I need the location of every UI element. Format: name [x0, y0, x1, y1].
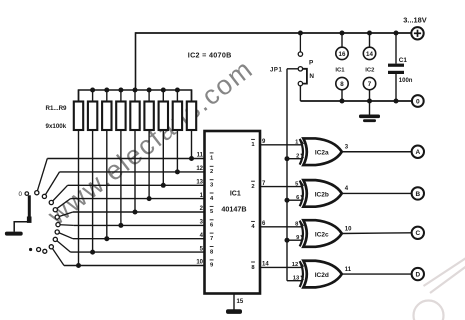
pin number 1 (IC2a top input): [295, 140, 303, 146]
ground (supply): [359, 115, 380, 123]
node keypad contact 3: [49, 200, 53, 204]
svg-text:8: 8: [340, 81, 344, 88]
svg-text:13: 13: [293, 276, 300, 282]
wire diagonal to contact 8: [55, 239, 70, 252]
junction top rail / IC1 supply: [340, 31, 345, 36]
pin label input 6 (inside): [210, 220, 214, 229]
wire IC1 to IC2a input 1: [260, 144, 303, 146]
node keypad contact 2: [42, 194, 46, 198]
watermark gray corner logo: [414, 258, 465, 320]
svg-text:D: D: [415, 271, 420, 278]
xor gate IC2b: [300, 180, 342, 207]
svg-text:40147B: 40147B: [221, 204, 246, 213]
junction bus / R8: [175, 88, 180, 93]
junction JP1 line / IC2a input: [285, 156, 290, 161]
terminal C: [412, 227, 424, 239]
pin number 5 (IC2b top input): [295, 181, 303, 187]
node JP1 lower contact: [298, 81, 302, 85]
node keypad contact 5: [55, 215, 59, 219]
svg-text:15: 15: [237, 299, 244, 305]
pin label input 7 (inside): [210, 233, 214, 242]
wire diagonal to contact 9: [51, 247, 64, 266]
wire JP1 common to XOR inputs: [287, 69, 298, 281]
resistor R8: [173, 90, 182, 172]
node keypad contact 6: [56, 223, 60, 227]
wire JP1 line to IC2d input 13: [287, 280, 302, 282]
junction bus / R3: [104, 88, 109, 93]
svg-text:10: 10: [345, 226, 352, 232]
svg-text:R1...R9: R1...R9: [46, 105, 68, 112]
capacitor C1: [388, 64, 404, 74]
pin label output 8 (inside): [251, 262, 255, 271]
junction 0V / IC1 pin8: [340, 99, 345, 104]
junction R8 / input wire 2: [175, 169, 180, 174]
svg-text:IC1: IC1: [230, 190, 241, 197]
junction R5 / input wire 5: [133, 210, 138, 215]
svg-text:4: 4: [345, 186, 349, 192]
svg-text:9x100k: 9x100k: [46, 123, 67, 130]
svg-text:IC2c: IC2c: [315, 231, 329, 238]
svg-text:IC2: IC2: [365, 68, 375, 74]
pin label output 4 (inside): [251, 221, 255, 230]
watermark red diagonal text: [42, 53, 259, 231]
junction R2 / input wire 8: [90, 250, 95, 255]
svg-text:7: 7: [368, 81, 372, 88]
svg-text:14: 14: [366, 51, 373, 58]
junction bus / R7: [161, 88, 166, 93]
wire keypad contact 2 to IC1 pin 12: [60, 171, 205, 173]
pin number 2 (IC2a bottom input): [296, 154, 303, 160]
junction top rail / JP1: [298, 31, 303, 36]
wire diagonal to contact 1: [37, 159, 48, 193]
pin number 13 (IC2d bottom input): [293, 276, 304, 282]
junction R1 / input wire 9: [76, 263, 81, 268]
pin label input 9 (inside): [210, 260, 214, 269]
wire arm to common bar: [14, 222, 29, 232]
resistor R6: [144, 90, 153, 199]
wire C1 bottom lead: [395, 74, 397, 101]
svg-text:2: 2: [296, 154, 299, 160]
wire IC1 pin16 stub: [341, 33, 343, 47]
svg-text:IC2b: IC2b: [315, 191, 329, 198]
junction bus / R2: [90, 88, 95, 93]
terminal +V: [411, 27, 423, 39]
junction R4 / input wire 6: [118, 223, 123, 228]
terminal 0V: [412, 95, 424, 107]
resistor R9: [187, 90, 196, 159]
wire +V top rail: [136, 32, 412, 34]
xor gate IC2a: [300, 138, 342, 165]
svg-text:P: P: [309, 60, 314, 67]
svg-text:B: B: [415, 191, 420, 198]
svg-text:N: N: [309, 73, 314, 80]
svg-text:12: 12: [196, 166, 203, 172]
wire keypad contact 9 to IC1 pin 10: [64, 265, 205, 267]
wire IC2 pin14 stub: [369, 33, 371, 47]
svg-text:16: 16: [339, 51, 346, 58]
wire C1 top lead: [395, 33, 397, 64]
ground (IC1 pin15): [226, 309, 242, 314]
svg-text:2: 2: [210, 169, 213, 175]
xor gate IC2c: [300, 220, 342, 247]
wire diagonal to contact 4: [55, 199, 70, 210]
wire IC2d output to terminal D: [342, 273, 412, 275]
junction bus / R5: [133, 88, 138, 93]
svg-text:0: 0: [416, 99, 420, 106]
wire keypad contact 7 to IC1 pin 4: [73, 238, 205, 240]
wire JP1 line to IC2c input 9: [287, 239, 302, 241]
svg-text:7: 7: [210, 236, 213, 242]
svg-text:3: 3: [345, 145, 349, 151]
svg-text:0: 0: [19, 191, 23, 198]
wire IC2 pin7 to ground: [369, 101, 371, 115]
terminal A: [412, 146, 424, 158]
wire JP1 line to IC2a input 2: [287, 158, 302, 160]
pin number 6 (IC2b bottom input): [296, 195, 303, 201]
svg-text:C1: C1: [399, 57, 408, 64]
junction top rail / IC2 supply: [367, 31, 372, 36]
wire IC2c output to terminal C: [342, 232, 412, 235]
resistor R1: [74, 90, 83, 266]
svg-text:IC2 = 4070B: IC2 = 4070B: [188, 50, 232, 59]
svg-text:12: 12: [292, 262, 298, 268]
pin number 8 (IC2c top input): [295, 222, 303, 228]
common bar (0V keypad): [5, 232, 23, 236]
svg-text:IC1: IC1: [335, 68, 345, 74]
resistor R3: [102, 90, 111, 239]
svg-text:11: 11: [197, 153, 204, 159]
node lower aux contact a: [37, 248, 41, 252]
wire IC1 to IC2c input 8: [260, 226, 303, 228]
svg-text:100n: 100n: [399, 78, 413, 84]
node keypad contact 1: [35, 191, 39, 195]
junction R6 / input wire 4: [147, 196, 152, 201]
wire IC2a output to terminal A: [342, 151, 412, 153]
pin label output 2 (inside): [251, 181, 255, 190]
wire resistor bus: [79, 90, 192, 102]
svg-text:IC2a: IC2a: [315, 150, 329, 157]
svg-text:10: 10: [196, 260, 203, 266]
svg-text:A: A: [415, 149, 420, 156]
junction bus / R6: [147, 88, 152, 93]
wire JP1 N to 0V rail: [299, 86, 301, 101]
xor gate IC2d: [300, 261, 342, 288]
pin number 12 (IC2d top input): [292, 262, 304, 268]
wire JP1 line to IC2b input 6: [287, 199, 302, 201]
junction R7 / input wire 3: [161, 183, 166, 188]
pin label input 3 (inside): [210, 180, 214, 189]
wire diagonal to contact 7: [57, 232, 73, 239]
wire diagonal to contact 2: [44, 172, 59, 197]
wire IC1 pin15 to ground: [233, 294, 235, 310]
resistor R2: [88, 90, 97, 252]
wire IC2 pin7 stub: [369, 90, 371, 101]
junction R3 / input wire 7: [104, 236, 109, 241]
svg-text:C: C: [415, 230, 420, 237]
node key 0 contact: [25, 192, 29, 196]
svg-text:3...18V: 3...18V: [403, 16, 426, 25]
wire keypad contact 3 to IC1 pin 13: [68, 184, 205, 186]
wire keypad contact 1 to IC1 pin 11: [47, 158, 204, 160]
resistor R7: [159, 90, 168, 185]
IC2 supply pin 7: [363, 77, 375, 89]
pin label input 4 (inside): [210, 193, 214, 202]
wire IC1 pin8 stub: [341, 90, 343, 101]
pin label input 2 (inside): [210, 166, 214, 175]
node lower aux dot: [29, 248, 32, 251]
wire keypad contact 6 to IC1 pin 3: [74, 224, 205, 226]
node JP1 common contact: [298, 67, 302, 71]
IC1 supply pin 8: [336, 77, 348, 89]
node keypad contact 8: [53, 237, 57, 241]
junction 0V / IC2 pin7: [367, 99, 372, 104]
IC1 supply pin 16: [336, 47, 348, 59]
wire IC1 to IC2d input 12: [260, 266, 303, 268]
wire diagonal to contact 5: [57, 212, 73, 217]
pin number 9 (IC2c bottom input): [296, 235, 303, 241]
terminal D: [412, 268, 424, 280]
pin label input 5 (inside): [210, 206, 214, 215]
pin label output 1 (inside): [251, 139, 255, 148]
pin label input 8 (inside): [210, 247, 214, 256]
wire IC2b output to terminal B: [342, 192, 412, 194]
node lower aux contact b: [43, 249, 47, 253]
svg-text:JP1: JP1: [270, 67, 283, 73]
node keypad contact 4: [53, 208, 57, 212]
terminal B: [412, 187, 424, 199]
wire diagonal to contact 6: [58, 224, 74, 227]
wire 0V rail: [300, 100, 412, 102]
wire IC1 to IC2b input 5: [260, 186, 303, 188]
switch arm (wiper): [27, 195, 32, 223]
junction bus / R4: [118, 88, 123, 93]
svg-text:13: 13: [196, 180, 203, 186]
junction JP1 line / IC2b input: [285, 198, 290, 203]
junction 0V / C1: [394, 99, 399, 104]
svg-text:IC2d: IC2d: [315, 272, 329, 279]
svg-text:2: 2: [251, 184, 254, 190]
junction JP1 line / IC2c input: [285, 238, 290, 243]
wire +V feed down to resistor bus: [135, 32, 137, 90]
wire keypad contact 4 to IC1 pin 1: [71, 198, 205, 200]
resistor R5: [130, 90, 139, 212]
node keypad contact 9: [49, 245, 53, 249]
node keypad contact 7: [55, 230, 59, 234]
op IC1 40147B body: [205, 131, 261, 294]
wire keypad contact 8 to IC1 pin 5: [71, 251, 205, 253]
node JP1 upper contact: [298, 52, 302, 56]
resistor R4: [116, 90, 125, 225]
svg-text:11: 11: [345, 267, 352, 273]
pin label input 1 (inside): [210, 153, 214, 162]
JP1 shunt bracket: [303, 69, 307, 84]
IC2 supply pin 14: [363, 47, 375, 59]
wire diagonal to contact 3: [51, 185, 67, 202]
junction top rail / C1: [394, 31, 399, 36]
wire JP1 P to +V rail: [299, 33, 301, 52]
junction R9 / input wire 1: [189, 156, 194, 161]
wire keypad contact 5 to IC1 pin 2: [73, 211, 205, 213]
